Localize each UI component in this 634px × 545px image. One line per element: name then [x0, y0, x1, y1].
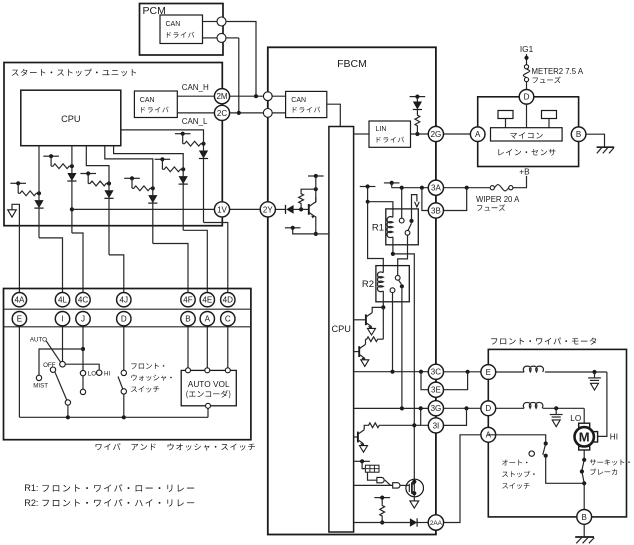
svg-text:J: J: [81, 315, 85, 324]
connector 1V: [214, 202, 229, 217]
connector 2AA: [428, 515, 443, 530]
pull-up resistor + clamp diode (S6): [155, 158, 171, 160]
pull-up diode + resistor at 2G line: [410, 96, 426, 98]
wire 3E jog: [444, 372, 468, 390]
relay R2 box: [376, 266, 409, 302]
auto-stop switch: [488, 435, 546, 444]
svg-text:A: A: [475, 130, 481, 139]
svg-text:MIST: MIST: [33, 383, 48, 390]
wire CAN driver to 2C: [177, 112, 222, 114]
pull-up resistor + clamp diode (S7): [175, 133, 191, 135]
front wiper motor box: [488, 349, 626, 517]
svg-text:B: B: [185, 315, 190, 324]
svg-text:D: D: [524, 93, 530, 102]
wire D line to motor LO: [583, 408, 585, 423]
svg-text:2AA: 2AA: [430, 520, 443, 527]
oscillator/driver cluster for MOSFET gate: [354, 460, 370, 462]
wire 2C to FBCM: [230, 112, 286, 114]
svg-text:HI: HI: [104, 371, 110, 378]
svg-text:2G: 2G: [431, 130, 442, 139]
svg-text:HI: HI: [610, 432, 618, 441]
PCM module box: [140, 4, 224, 56]
wire 2G to A: [444, 133, 471, 135]
wire breaker to B: [583, 483, 585, 509]
connector B (switch): [181, 312, 195, 326]
connector 2C: [214, 105, 229, 120]
supply stub for 3A line: [384, 182, 400, 184]
wire PCM CAN_H to junction: [203, 21, 218, 23]
transistor Q2c with collector resistor to 3I line: [354, 436, 358, 438]
fuse METER2 7.5A: [524, 65, 528, 69]
svg-text:FBCM: FBCM: [337, 58, 367, 70]
svg-text:AUTO: AUTO: [30, 336, 47, 343]
svg-text:D: D: [121, 315, 127, 324]
circuit breaker: [583, 450, 585, 460]
junction S3 / 1V rail: [70, 207, 74, 211]
fuse WIPER 20A: [490, 186, 494, 190]
connector 3I: [428, 418, 443, 433]
junction FBCM CAN_L: [263, 109, 272, 118]
connector I (switch): [55, 312, 69, 326]
relay R1 contact: [401, 188, 403, 219]
connector A (motor): [481, 427, 496, 442]
ground (motor): [583, 524, 585, 537]
wire 3I line with jog to 3G rail: [420, 408, 422, 425]
FBCM box: [268, 47, 436, 534]
switch common rail: [18, 326, 20, 417]
connector 3G: [428, 401, 443, 416]
svg-text:CAN: CAN: [291, 97, 306, 104]
buffer gate 2: [393, 483, 400, 488]
svg-text:AUTO VOL: AUTO VOL: [188, 379, 230, 389]
svg-text:4D: 4D: [223, 296, 234, 305]
svg-text:3B: 3B: [431, 206, 441, 215]
sensor element right: [542, 111, 557, 119]
junction PCM CAN_L: [217, 33, 226, 42]
connector E (switch): [12, 312, 26, 326]
inductor (E line): [496, 371, 524, 373]
connector C (switch): [221, 312, 235, 326]
svg-text:CAN: CAN: [166, 21, 181, 28]
connector 3A: [428, 180, 443, 195]
wire 3B loop to 3A line: [444, 188, 467, 211]
svg-text:M: M: [579, 430, 590, 445]
svg-text:CAN: CAN: [140, 97, 155, 104]
connector D (switch): [117, 312, 131, 326]
wire IG1 to fuse: [526, 54, 528, 65]
wire R2 contact to 3C rail: [392, 293, 394, 372]
connector 3B: [428, 203, 443, 218]
svg-text:CPU: CPU: [331, 324, 350, 334]
connector 2G: [428, 126, 443, 141]
svg-text:4E: 4E: [202, 296, 213, 305]
wire S3 to connector 4C: [71, 146, 73, 233]
washer switch: [123, 327, 125, 370]
wire S6 to connector 4E: [114, 146, 184, 231]
wire S4 to connector 4J: [86, 146, 109, 255]
buffer gate 1: [377, 477, 384, 482]
wire E line to HI brush: [598, 372, 607, 436]
pull-up resistor + clamp diode (S5): [124, 177, 140, 179]
pull-up resistor + clamp diode (S4): [80, 173, 96, 175]
wire supply to R2 coil: [368, 202, 384, 273]
svg-text:D: D: [485, 404, 491, 413]
svg-text:3A: 3A: [431, 184, 441, 193]
wire 3C rail: [354, 371, 429, 373]
wire 2AA to A: [444, 435, 481, 523]
MOSFET Q3 (relay low-side driver): [406, 479, 424, 497]
connector A (rain sensor): [470, 127, 485, 142]
svg-text:R2: R2: [362, 279, 374, 290]
junction FBCM CAN_H: [263, 92, 272, 101]
svg-text:2M: 2M: [216, 92, 227, 101]
wire CAN driver to CPU: [327, 104, 341, 126]
connector D (motor): [481, 401, 496, 416]
connector J (switch): [76, 312, 90, 326]
wire R1 coil to MOSFET drain line: [393, 254, 414, 482]
rain sensor box: [478, 97, 579, 167]
svg-text:R1: R1: [372, 223, 384, 234]
wire 3A line: [392, 187, 429, 189]
svg-text:E: E: [17, 315, 23, 324]
start-stop unit box: [4, 63, 222, 226]
transistor Q2b with collector resistor: [354, 351, 360, 353]
wire 3G rail: [354, 407, 429, 409]
svg-text:2C: 2C: [217, 109, 227, 118]
svg-text:CAN_H: CAN_H: [182, 83, 209, 92]
svg-text:4L: 4L: [58, 296, 68, 305]
svg-text:4A: 4A: [14, 296, 25, 305]
connector 4D: [221, 293, 235, 307]
connector B (rain sensor): [571, 127, 586, 142]
connector 4E: [200, 293, 214, 307]
svg-text:4C: 4C: [78, 296, 89, 305]
relay R2 coil: [377, 272, 383, 292]
connector 2M: [214, 89, 229, 104]
svg-text:LO: LO: [88, 371, 96, 378]
pull-up resistor + clamp diode (S2): [10, 182, 26, 184]
wire 3C to E: [444, 371, 481, 373]
connector B (motor): [577, 510, 592, 525]
junction PCM CAN_H: [217, 17, 226, 26]
transistor Q2a (R2 driver): [354, 319, 366, 321]
CAN driver U (in PCM): [160, 15, 203, 44]
wire B to ground: [586, 134, 605, 147]
wire CPU to 2AA rail: [354, 522, 410, 524]
svg-text:R2:: R2:: [24, 498, 38, 508]
svg-text:3E: 3E: [431, 386, 441, 395]
connector D (rain sensor): [519, 90, 534, 105]
svg-text:R1:: R1:: [24, 483, 38, 493]
capacitor to ground (D line): [555, 408, 557, 414]
wire 3I jog: [444, 408, 467, 425]
relay R2 contact: [395, 275, 400, 280]
svg-text:3G: 3G: [431, 404, 442, 413]
wire D to microcomputer: [526, 104, 528, 128]
svg-text:A: A: [205, 315, 211, 324]
connector 2Y: [260, 202, 275, 217]
wire R1 contact to R2 contact: [398, 235, 408, 275]
CAN driver U (FBCM): [286, 91, 327, 117]
supply stub for relay R1 coil: [360, 186, 376, 188]
capacitor to ground (E line): [594, 372, 596, 378]
wire S5 to connector 4F: [105, 146, 153, 244]
ground (start-stop unit): [8, 210, 17, 217]
main wiper switch blade: [55, 372, 67, 400]
pull-up resistor + clamp diode (S3): [43, 155, 59, 157]
wire 3A to fuse: [444, 187, 491, 189]
svg-text:WIPER 20 A: WIPER 20 A: [476, 195, 520, 204]
svg-text:3C: 3C: [431, 368, 441, 377]
label wiper and washer switch: [96, 443, 255, 450]
connector 4J: [117, 293, 131, 307]
CPU U1 (start-stop unit): [21, 90, 121, 146]
connector E (motor): [481, 365, 496, 380]
connector 4C: [76, 293, 90, 307]
AUTO VOL encoder box: [181, 370, 236, 405]
svg-text:C: C: [225, 315, 231, 324]
wire LIN driver to 2G: [411, 133, 429, 135]
connector A (switch): [200, 312, 214, 326]
svg-text:IG1: IG1: [520, 44, 534, 54]
svg-text:E: E: [486, 368, 491, 377]
svg-text:+B: +B: [519, 166, 530, 176]
svg-text:LO: LO: [570, 414, 581, 423]
wire 2M to FBCM: [230, 95, 286, 97]
LIN driver U (FBCM): [369, 121, 411, 147]
wire CAN driver to 2M: [177, 95, 222, 97]
svg-text:2Y: 2Y: [263, 205, 273, 214]
wire S7 to connector 4D: [121, 130, 204, 223]
wire fuse to D: [526, 82, 528, 90]
microcomputer box (maikon): [491, 128, 563, 141]
svg-text:1V: 1V: [217, 205, 227, 214]
wire CPU to LIN driver: [354, 133, 369, 135]
resistor to 2AA rail: [374, 497, 390, 499]
connector 3E: [428, 382, 443, 397]
connector 4L: [55, 293, 69, 307]
wire PCM CAN_L to junction: [203, 37, 218, 39]
motor M1: [579, 423, 590, 427]
svg-text:B: B: [582, 513, 587, 522]
svg-text:3I: 3I: [433, 421, 440, 430]
inductor (D line): [496, 407, 524, 409]
diode to 2AA: [410, 518, 417, 526]
svg-text:4F: 4F: [183, 296, 193, 305]
relay R1 box: [386, 209, 419, 245]
svg-text:METER2 7.5 A: METER2 7.5 A: [532, 67, 584, 76]
svg-text:4J: 4J: [120, 296, 129, 305]
wire 3A to 3B link: [422, 188, 428, 211]
relay R1 coil: [387, 217, 393, 238]
connector 3C: [428, 364, 443, 379]
ground (rain sensor): [597, 146, 615, 148]
connector 4A: [12, 293, 26, 307]
wire R2 contact to 3G rail: [401, 286, 403, 408]
svg-text:B: B: [576, 130, 581, 139]
wire S2 to connector 4L: [38, 146, 40, 238]
svg-text:CPU: CPU: [61, 114, 80, 124]
CAN driver U (start-stop unit): [134, 91, 177, 118]
svg-text:I: I: [61, 315, 63, 324]
sensor element left: [498, 111, 513, 119]
svg-text:CAN_L: CAN_L: [182, 117, 208, 126]
wire rail to 1V: [72, 208, 215, 210]
wiper and washer switch box: [4, 289, 251, 440]
wire 3E jog to 3C rail: [421, 372, 428, 390]
2Y input cluster: diode D, resistor, transistor Q: [276, 208, 286, 210]
wires B/A/C to AUTO VOL: [187, 327, 189, 368]
wire 1V to 2Y: [230, 208, 261, 210]
svg-text:LIN: LIN: [376, 126, 387, 133]
connector 4F: [181, 293, 195, 307]
wire 3G to D: [444, 407, 481, 409]
CPU U2 (FBCM): [329, 127, 354, 533]
